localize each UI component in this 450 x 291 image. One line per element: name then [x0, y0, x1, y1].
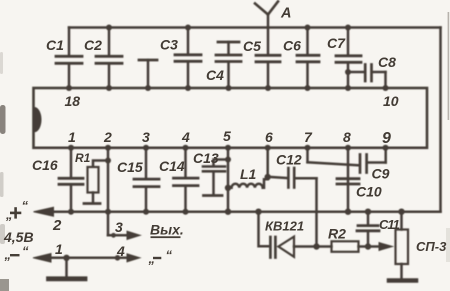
potentiometer SP-3: [396, 209, 409, 279]
svg-text:10: 10: [383, 93, 399, 109]
svg-text:C1: C1: [46, 37, 64, 53]
capacitor C14: [174, 145, 199, 215]
svg-text:4: 4: [116, 243, 125, 259]
svg-text:3: 3: [115, 219, 123, 235]
svg-text:C3: C3: [160, 37, 178, 53]
underline of Vykh: [151, 236, 181, 238]
svg-text:1: 1: [55, 241, 63, 257]
terminal 1 arrow: [33, 254, 51, 263]
antenna A: [255, 2, 278, 28]
svg-text:C7: C7: [327, 35, 346, 51]
svg-text:2: 2: [52, 217, 62, 234]
svg-text:3: 3: [142, 129, 150, 145]
svg-text:„: „: [5, 207, 13, 222]
wire pin2 stem and output branch: [105, 145, 129, 238]
capacitor C2: [96, 25, 122, 92]
svg-text:C4: C4: [206, 67, 224, 83]
wire top supply rail: [69, 26, 441, 29]
ground at terminal 1: [49, 258, 86, 279]
svg-text:R1: R1: [75, 151, 91, 165]
svg-text:Вых.: Вых.: [150, 222, 184, 238]
svg-text:6: 6: [265, 129, 273, 145]
svg-text:2: 2: [103, 129, 112, 145]
svg-text:C9: C9: [372, 166, 390, 182]
terminal stub pin16: [139, 60, 157, 91]
capacitor C16: [59, 145, 83, 215]
svg-text:R2: R2: [328, 226, 346, 242]
ground at potentiometer: [389, 278, 416, 283]
IC notch: [35, 107, 42, 132]
svg-text:C13: C13: [193, 150, 219, 166]
svg-text:C16: C16: [32, 157, 58, 173]
svg-text:“: “: [22, 198, 29, 213]
svg-text:1: 1: [68, 129, 76, 145]
svg-text:C6: C6: [283, 38, 301, 54]
capacitor C13: [203, 160, 228, 196]
svg-text:C12: C12: [276, 152, 302, 168]
wire right rail: [439, 28, 442, 212]
capacitor C3: [175, 25, 201, 92]
svg-text:“: “: [166, 248, 173, 263]
svg-text:КВ121: КВ121: [265, 219, 304, 234]
resistor R2: [317, 241, 372, 252]
svg-text:5: 5: [223, 128, 231, 144]
svg-text:L1: L1: [240, 166, 257, 182]
capacitor C1: [56, 28, 82, 92]
svg-text:СП-3: СП-3: [416, 239, 447, 254]
svg-text:8: 8: [343, 129, 351, 145]
resistor R1: [84, 158, 111, 204]
svg-text:“: “: [22, 244, 29, 259]
label plus terminal: [10, 212, 21, 215]
terminal 2 arrow plus supply: [34, 207, 54, 216]
svg-text:4,5В: 4,5В: [3, 229, 34, 245]
svg-text:9: 9: [382, 130, 391, 147]
capacitor C9: [308, 145, 389, 173]
wire pin6 stem: [265, 145, 271, 180]
capacitor C15: [134, 145, 159, 215]
svg-text:„: „: [4, 247, 12, 262]
wire bottom supply rail: [42, 210, 441, 213]
capacitor C6: [297, 25, 319, 92]
capacitor C8: [345, 65, 389, 92]
wire pin7 stem: [305, 145, 311, 163]
terminal 3 arrow Vykh: [127, 231, 140, 239]
wire pin5 stem: [225, 145, 231, 215]
svg-text:C14: C14: [159, 158, 185, 174]
svg-text:C2: C2: [84, 37, 102, 53]
capacitor C7: [336, 25, 361, 92]
capacitor C10: [337, 145, 359, 215]
label minus right: [153, 257, 161, 259]
label minus left: [10, 254, 20, 256]
svg-text:4: 4: [181, 129, 190, 145]
svg-text:С11: С11: [379, 217, 400, 232]
svg-text:A: A: [280, 6, 291, 22]
capacitor C4: [216, 42, 241, 91]
svg-text:C5: C5: [243, 38, 261, 54]
svg-text:C8: C8: [378, 54, 396, 70]
inductor L1: [228, 179, 268, 188]
svg-text:C15: C15: [117, 159, 143, 175]
svg-text:7: 7: [304, 129, 313, 145]
svg-text:„: „: [148, 251, 156, 266]
svg-text:C10: C10: [356, 184, 382, 200]
varicap diode KB121: [255, 209, 319, 258]
capacitor C5: [256, 28, 280, 92]
wire terminal 1-4 line: [40, 255, 132, 261]
op-amp U1 IC body: [34, 88, 428, 148]
wire C12 to varicap node: [315, 178, 318, 246]
capacitor C11: [357, 209, 379, 247]
terminal 4 arrow: [127, 254, 140, 262]
capacitor C12: [268, 168, 317, 188]
svg-text:18: 18: [65, 93, 81, 109]
wiper arrow to potentiometer: [368, 243, 393, 251]
